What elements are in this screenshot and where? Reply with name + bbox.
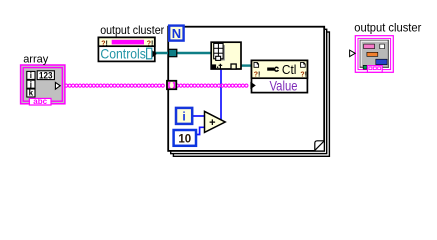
svg-text:N: N: [172, 26, 181, 41]
svg-text:Ctl: Ctl: [282, 62, 297, 77]
svg-text:output cluster: output cluster: [100, 23, 164, 37]
svg-text:!: !: [305, 71, 307, 78]
svg-text:123: 123: [39, 70, 53, 80]
svg-text:Value: Value: [270, 78, 298, 94]
svg-text:i: i: [182, 110, 185, 124]
svg-text:array: array: [23, 53, 49, 65]
svg-text:abc: abc: [33, 97, 47, 106]
svg-text:Controls: Controls: [100, 45, 145, 61]
svg-text:output cluster: output cluster: [354, 21, 421, 35]
svg-text:j: j: [29, 80, 32, 89]
svg-text:!: !: [258, 71, 260, 78]
svg-text:!: !: [151, 40, 153, 47]
svg-text:10: 10: [178, 134, 191, 146]
svg-text:i: i: [30, 71, 32, 80]
svg-text:+: +: [209, 117, 215, 129]
